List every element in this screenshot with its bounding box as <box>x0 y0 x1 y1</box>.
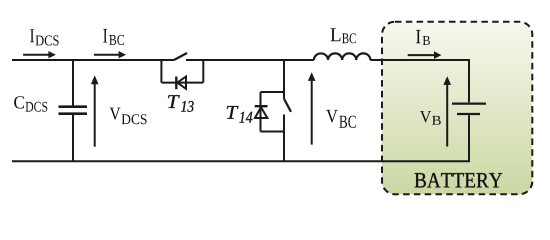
label T13 <box>168 95 194 112</box>
battery cell wire top <box>468 60 470 102</box>
arrow IDCS <box>23 51 56 58</box>
switch T14 vertical branch <box>284 59 291 161</box>
label CDCS <box>14 96 47 112</box>
wire: bottom bus <box>12 160 470 162</box>
wire: top bus right segment <box>370 59 470 61</box>
label VB <box>420 111 441 125</box>
label IB <box>416 30 430 45</box>
diode of T14 (cathode bar + hollow triangle pointing up) <box>255 106 268 118</box>
label BATTERY <box>415 173 503 188</box>
wire: top bus middle segment <box>186 59 314 61</box>
arrow VB <box>443 76 451 146</box>
label IBC <box>103 29 124 45</box>
switch T13 parallel diode branch <box>161 59 203 83</box>
arrow IBC <box>94 51 126 58</box>
switch T13 blade <box>174 53 187 60</box>
label VBC <box>326 110 356 128</box>
label IDCS <box>30 29 58 45</box>
capacitor CDCS <box>59 60 88 161</box>
battery cell wire bottom <box>468 115 470 161</box>
label LBC <box>331 28 356 43</box>
arrow VBC <box>308 72 316 144</box>
battery cell short plate <box>457 113 480 115</box>
diode of T13 (cathode bar + hollow triangle pointing left) <box>176 77 186 90</box>
label T14 <box>227 106 253 123</box>
label VDCS <box>110 108 147 125</box>
inductor LBC <box>314 53 370 60</box>
wire: top bus left segment <box>12 59 174 61</box>
battery enclosure (dashed rounded box) <box>382 22 532 195</box>
arrow IB <box>408 51 442 59</box>
arrow VDCS <box>91 75 99 147</box>
battery cell long plate <box>452 102 486 104</box>
T14 parallel diode branch <box>261 92 285 132</box>
